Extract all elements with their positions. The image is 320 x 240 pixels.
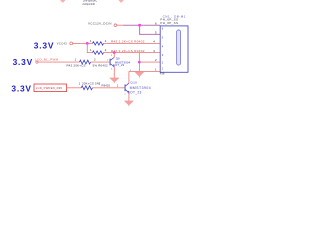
power arrow below Q9 [110, 78, 119, 82]
svg-text:VCC43: VCC43 [57, 41, 67, 45]
wire row 1 [38, 61, 80, 63]
junction dot branch [86, 42, 89, 45]
power arrow top-left (cut off) [60, 0, 66, 3]
transistor Q9 [110, 57, 115, 67]
svg-text:3.3V: 3.3V [13, 57, 33, 67]
connector slot [177, 30, 181, 65]
svg-text:3.3V: 3.3V [11, 83, 31, 93]
power arrow at pin1 net [135, 72, 144, 77]
svg-text:PH_6P_SS: PH_6P_SS [160, 21, 178, 25]
svg-text:SOT_23: SOT_23 [113, 63, 125, 67]
svg-text:SOT_23: SOT_23 [128, 90, 142, 94]
svg-text:3.3V: 3.3V [34, 41, 54, 51]
resistor R47 [93, 51, 104, 54]
highlight box [34, 84, 67, 92]
svg-text:2mFSpm24C: 2mFSpm24C [83, 0, 97, 2]
svg-text:2x16pm240: 2x16pm240 [82, 3, 95, 6]
wire R94 to Q10 base [93, 87, 125, 89]
svg-text:R43 2.2K+CS R0402: R43 2.2K+CS R0402 [111, 40, 145, 44]
svg-text:R42 20K+CS: R42 20K+CS [67, 64, 86, 68]
Q9 emitter wire down [113, 67, 115, 78]
wire row A [73, 42, 93, 44]
wire pin1 from Q10 collector [129, 70, 160, 72]
Q9 collector wire up [113, 53, 115, 58]
power arrow top-mid (cut off) [118, 0, 124, 3]
note text (2 lines, top center) [82, 0, 97, 6]
svg-text:5% R0402: 5% R0402 [93, 64, 108, 68]
wire R47 to pin3 [104, 52, 161, 54]
wire R42 to Q9 base [91, 61, 110, 63]
junction dot [138, 24, 141, 27]
wire row 2 [67, 87, 82, 89]
wire R43 to pin4 [104, 42, 161, 44]
terminal circle VCC12V_DCIN [114, 24, 117, 27]
svg-text:R47 2.2K+CS R0402: R47 2.2K+CS R0402 [111, 49, 145, 53]
junction dot pin2 [138, 61, 141, 64]
wire pin6 [117, 24, 123, 26]
svg-text:R9402: R9402 [102, 83, 111, 87]
svg-text:Q10: Q10 [130, 81, 137, 85]
terminal circle VCC43 [70, 42, 73, 45]
resistor R42 [80, 60, 91, 64]
vertical wire rowB to pin1 level [138, 53, 140, 72]
connector CN1 box [160, 26, 188, 72]
power arrow below Q10 [124, 101, 133, 105]
resistor R94 [81, 86, 92, 90]
wire pin2 [139, 61, 160, 63]
svg-text:LCD_PWREN_R#0: LCD_PWREN_R#0 [36, 86, 63, 90]
terminal circle row 1 [36, 61, 38, 63]
wire to pin5 [140, 25, 161, 34]
Q10 collector wire up [128, 71, 130, 83]
Q10 emitter wire down [128, 93, 130, 101]
resistor R43 [93, 42, 104, 45]
svg-text:LCD_BL_PWM: LCD_BL_PWM [35, 58, 59, 62]
svg-text:20K+CS 5%: 20K+CS 5% [82, 82, 100, 86]
junction dot Q9 collector [113, 51, 116, 54]
svg-text:PJ6: PJ6 [160, 72, 165, 76]
wire branch to row B [87, 43, 92, 52]
svg-text:VCC12V_DCIN: VCC12V_DCIN [88, 21, 112, 25]
transistor Q10 [125, 83, 130, 93]
